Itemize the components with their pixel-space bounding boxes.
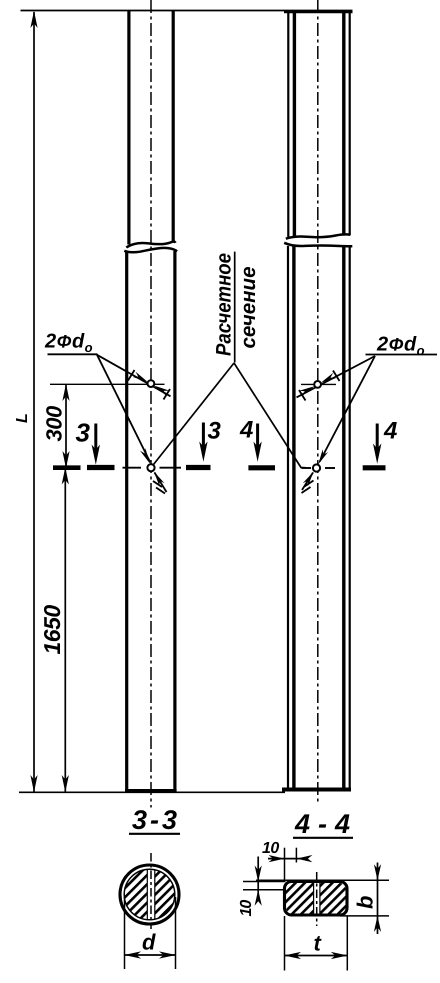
hole left lower	[147, 464, 154, 471]
leader расчетное сечение to right lower hole	[234, 363, 306, 468]
label 3-3 underline	[129, 833, 180, 835]
dimension L top arrowhead	[30, 11, 37, 28]
svg-text:3-3: 3-3	[132, 805, 177, 835]
section marker 3 right arrow	[202, 423, 205, 455]
dimension 10 left lines	[243, 881, 286, 883]
dimension d extension lines	[124, 897, 126, 969]
section view 4-4 hatched bar	[286, 883, 346, 914]
dimension b line with arrows	[377, 863, 379, 935]
section view 4-4 top extension line	[256, 879, 389, 881]
lower-left hole tail arrow	[155, 473, 167, 493]
leader 2Фd0 left to lower hole	[97, 355, 150, 463]
lower-right hole tail arrow	[302, 473, 313, 491]
dimension 1650 bottom arrowhead	[62, 775, 69, 792]
dimension 1650 top arrowhead	[62, 467, 69, 484]
label 4-4 underline	[293, 837, 353, 839]
section view 3-3 centerline	[150, 853, 152, 929]
dimension d line with arrows	[125, 954, 176, 956]
hole right lower	[313, 464, 320, 471]
post 1 bottom edge	[125, 789, 177, 793]
section marker 3 left foot bar	[87, 465, 115, 470]
leader 2Фd0 right to upper hole (through-hole diagonal)	[297, 356, 376, 397]
section view 3-3 hatched halves	[123, 868, 176, 921]
dimension L bottom arrowhead	[30, 775, 37, 792]
dimension 10 top extension lines	[284, 848, 286, 882]
label 2Фd0 right underline	[366, 354, 438, 356]
leader расчетное сечение to left lower hole	[152, 363, 235, 467]
svg-text:L: L	[14, 413, 31, 423]
section view 3-3 inner circle	[124, 869, 175, 920]
svg-text:4: 4	[383, 418, 397, 445]
post 2 bottom edge	[282, 788, 351, 792]
section marker 4 left foot bar	[248, 465, 275, 470]
svg-text:d: d	[142, 930, 156, 955]
horizontal line through right upper hole	[301, 383, 336, 385]
svg-text:3: 3	[76, 418, 91, 448]
svg-text:b: b	[353, 896, 378, 909]
section line 4-4 dash left	[302, 467, 312, 469]
svg-text:4: 4	[239, 417, 253, 444]
section line 4-4 dash right	[325, 467, 335, 469]
svg-text:300: 300	[42, 405, 67, 441]
svg-text:4-4: 4-4	[294, 809, 350, 839]
svg-text:10: 10	[262, 840, 279, 857]
post 2 top edge	[284, 10, 353, 13]
svg-text:сечение: сечение	[237, 266, 260, 348]
post 2 (right column) outline upper part	[288, 12, 349, 238]
section marker 4 right foot bar	[363, 465, 386, 470]
dimension L line	[33, 12, 35, 792]
dimension 10 top line with arrows	[268, 858, 307, 860]
dimension b extension line bottom	[340, 915, 389, 917]
section view 4-4 centerline	[316, 872, 318, 926]
post 1 (left column) outline lower part	[127, 251, 175, 791]
section marker 4 right arrow	[376, 424, 379, 457]
svg-text:3: 3	[208, 418, 222, 445]
hole right upper	[314, 381, 321, 388]
bottom extension line	[19, 791, 285, 793]
svg-text:1650: 1650	[39, 605, 65, 655]
dimension 1650 line	[64, 468, 66, 792]
leader 2Фd0 right to lower hole	[320, 356, 375, 462]
dimension 300 extension line through upper hole	[50, 383, 165, 385]
dimension 300 line	[65, 384, 67, 467]
dimension 300 bottom arrowhead	[62, 451, 69, 468]
post 2 break wavy lines	[286, 234, 351, 238]
section marker 3 left arrow	[94, 424, 97, 458]
dimension 10 left arrow line	[257, 857, 259, 902]
label Расчетное сечение divider line	[234, 252, 236, 363]
post 1 break wavy lines	[126, 242, 175, 248]
post 2 (right column) centerline	[317, 0, 319, 802]
section line 3-3 dash left	[123, 467, 142, 469]
svg-text:Расчетное: Расчетное	[213, 253, 236, 356]
feather ticks at diagonal ends	[128, 370, 170, 400]
section line 3-3 left end bar	[53, 465, 81, 470]
post 1 (left column) centerline	[150, 0, 152, 808]
section line 3-3 dash right	[160, 467, 182, 469]
svg-text:10: 10	[238, 900, 255, 917]
dimension t extension lines	[284, 916, 286, 971]
leader 2Фd0 left to upper hole (through-hole diagonal)	[97, 355, 171, 397]
section view 3-3 outer circle	[120, 865, 179, 924]
section marker 3 right foot bar	[186, 465, 211, 470]
section view 4-4 outline	[285, 882, 348, 916]
post 1 (left column) outline upper part	[129, 10, 173, 245]
top extension line	[21, 10, 353, 12]
post 2 (right column) outline lower part	[288, 246, 350, 790]
hole left upper	[148, 380, 155, 387]
dimension 300 top arrowhead	[62, 384, 69, 401]
section marker 4 left arrow	[256, 424, 259, 455]
dimension t line with arrows	[285, 955, 348, 957]
label 2Фd0 left underline	[48, 353, 98, 355]
